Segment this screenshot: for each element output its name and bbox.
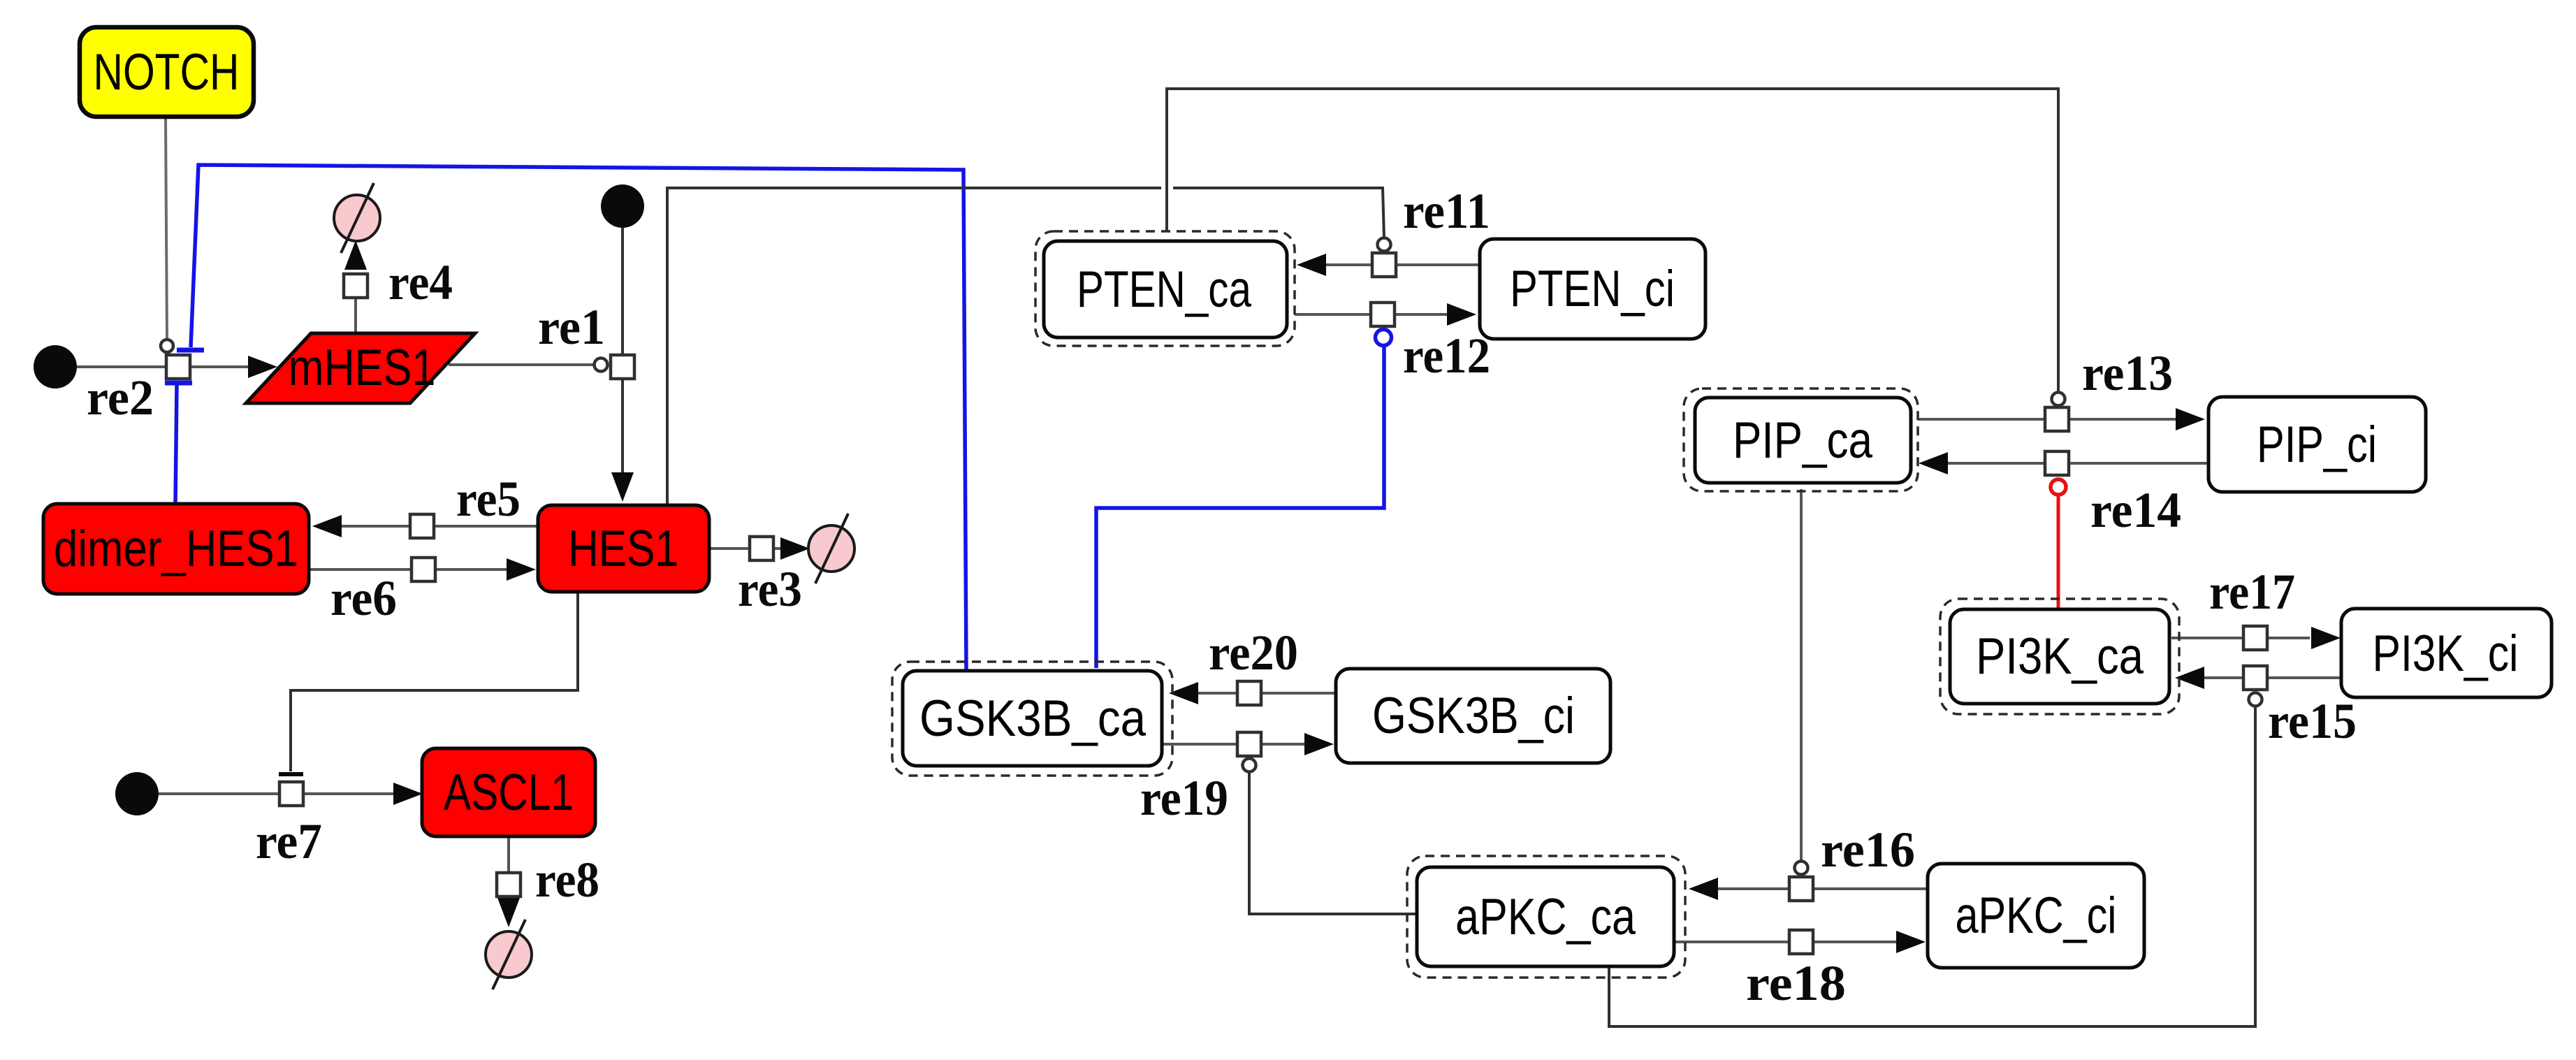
species aPKC_ca <box>1407 856 1685 978</box>
arrow re12 into PTEN_ci <box>1447 303 1476 326</box>
species PTEN_ci <box>1480 239 1705 339</box>
arrow re15 into PI3K_ca <box>2175 667 2204 689</box>
arrow re8 into degradation <box>497 898 520 927</box>
wire re1 square to HES1 <box>621 378 624 475</box>
wire catalysis HES1 to re11 <box>667 188 1161 504</box>
wire re19 square to arrow <box>1260 743 1306 746</box>
wire re18 square to arrow <box>1812 941 1898 943</box>
svg-text:PIP_ca: PIP_ca <box>1733 412 1872 469</box>
arrow re11 into PTEN_ca <box>1297 254 1326 276</box>
catalysis circle re2 <box>161 340 173 352</box>
arrow re17 into PI3K_ci <box>2311 627 2341 649</box>
process square re6 <box>412 558 435 581</box>
svg-text:re3: re3 <box>738 561 802 617</box>
wire re13 PIP_ca to square <box>1918 418 2046 421</box>
svg-text:re17: re17 <box>2209 564 2295 620</box>
arrow re20 into GSK3B_ca <box>1169 682 1198 704</box>
wire re15 PI3K_ci to square <box>2266 676 2341 679</box>
catalysis circle re14 (red) <box>2051 479 2066 495</box>
arrow re18 into aPKC_ci <box>1896 931 1926 953</box>
svg-text:re4: re4 <box>388 254 453 310</box>
svg-text:PTEN_ci: PTEN_ci <box>1510 261 1675 317</box>
arrow re6 into HES1 <box>507 558 536 581</box>
svg-text:re15: re15 <box>2268 693 2357 749</box>
wire re7 square to arrow <box>303 792 395 795</box>
process square re3 <box>750 537 773 560</box>
svg-text:re8: re8 <box>535 852 599 908</box>
wire catalysis PTEN_ca to re13 <box>1167 89 2058 392</box>
arrow re13 into PIP_ci <box>2176 408 2205 430</box>
wire re6 dimer_HES1 to square <box>309 568 412 571</box>
svg-text:re5: re5 <box>456 471 521 527</box>
species aPKC_ci <box>1928 864 2144 968</box>
process square re4 <box>344 274 368 298</box>
wire re1 source to square <box>621 228 624 356</box>
process square re11 <box>1372 253 1396 277</box>
wire catalysis NOTCH to re2 <box>166 117 167 339</box>
catalysis circle re11 <box>1378 238 1391 252</box>
species ASCL1 <box>422 748 595 836</box>
wire catalysis GSK3B_ca to re12 (blue) <box>1096 345 1384 668</box>
svg-text:re12: re12 <box>1403 328 1490 384</box>
wire re5 square to arrow <box>340 525 411 528</box>
svg-text:GSK3B_ci: GSK3B_ci <box>1372 688 1575 744</box>
wire re17 PI3K_ca to square <box>2171 637 2244 639</box>
wire re14 square to arrow <box>1946 462 2046 465</box>
catalysis circle re12 (blue) <box>1376 330 1392 346</box>
wire re19 GSK3B_ca to square <box>1163 743 1238 746</box>
wire re11 PTEN_ci to square <box>1395 263 1480 266</box>
catalysis circle re19 <box>1243 759 1256 772</box>
species dimer_HES1 <box>43 504 309 594</box>
wire re14 PIP_ci to square <box>2068 462 2208 465</box>
wire catalysis HES1 to re11 segment 2 <box>1173 188 1384 237</box>
svg-text:re20: re20 <box>1209 625 1298 681</box>
process square re15 <box>2243 666 2267 690</box>
svg-text:re18: re18 <box>1746 955 1846 1011</box>
species HES1 <box>538 505 709 592</box>
wire catalysis aPKC_ca to re15 <box>1609 707 2255 1026</box>
svg-text:PTEN_ca: PTEN_ca <box>1077 261 1251 318</box>
wire inhibition dimer_HES1 to re2 (blue) <box>175 385 177 505</box>
wire re12 PTEN_ca to square <box>1295 313 1371 316</box>
arrow re1 into HES1 <box>611 472 634 502</box>
process square re5 <box>410 514 434 538</box>
source node re7 <box>115 772 159 815</box>
wire re2 source to square <box>77 365 167 368</box>
inhibition bar re2 upper (blue) <box>177 348 204 353</box>
wire re13 square to arrow <box>2068 418 2177 421</box>
degradation sink re4 <box>334 183 380 253</box>
process square re7 <box>279 782 303 806</box>
svg-text:GSK3B_ca: GSK3B_ca <box>919 690 1146 747</box>
degradation sink re8 <box>486 920 532 989</box>
species GSK3B_ca <box>892 662 1172 776</box>
catalysis circle re1 <box>595 358 608 372</box>
wire re16 aPKC_ci to square <box>1812 887 1928 890</box>
catalysis circle re15 <box>2249 693 2262 706</box>
wire re6 square to arrow <box>435 568 508 571</box>
wire re20 GSK3B_ci to square <box>1260 692 1336 695</box>
species PIP_ca <box>1684 389 1918 491</box>
svg-text:ASCL1: ASCL1 <box>444 764 574 821</box>
wire re4 mHES1 to square <box>354 296 357 333</box>
species PTEN_ca <box>1035 231 1295 346</box>
arrow re14 into PIP_ca <box>1919 452 1948 474</box>
wire catalysis PIP_ca to re16 <box>1800 489 1803 861</box>
process square re1 <box>611 355 634 379</box>
wire re18 aPKC_ca to square <box>1675 941 1790 943</box>
species PIP_ci <box>2208 397 2426 492</box>
source node re1 <box>601 184 644 228</box>
wire re3 HES1 to square <box>709 547 750 550</box>
process square re13 <box>2045 407 2069 431</box>
wire catalysis PI3K_ca to re14 (red) <box>2057 494 2060 608</box>
svg-text:PIP_ci: PIP_ci <box>2257 416 2377 473</box>
svg-text:re14: re14 <box>2090 482 2181 538</box>
wire re15 square to arrow <box>2203 676 2244 679</box>
process square re2 <box>166 355 190 379</box>
svg-text:aPKC_ci: aPKC_ci <box>1956 887 2117 944</box>
wire re5 HES1 to square <box>435 525 538 528</box>
arrow re7 into ASCL1 <box>393 783 423 805</box>
arrow re2 into mHES1 <box>248 356 277 378</box>
svg-text:aPKC_ca: aPKC_ca <box>1455 889 1636 945</box>
wire inhibition GSK3B_ca to re2 (blue) <box>191 165 966 669</box>
svg-text:re7: re7 <box>256 813 322 869</box>
svg-text:dimer_HES1: dimer_HES1 <box>54 521 298 577</box>
svg-text:mHES1: mHES1 <box>289 340 436 396</box>
svg-text:PI3K_ca: PI3K_ca <box>1976 628 2144 685</box>
wire re7 source to square <box>159 792 280 795</box>
source node re2 <box>34 345 77 389</box>
wire catalysis aPKC_ca to re19 <box>1249 773 1416 914</box>
process square re18 <box>1789 930 1813 954</box>
inhibition bar re7 <box>279 772 303 776</box>
process square re20 <box>1237 681 1261 705</box>
species mHES1 (RNA) <box>246 333 475 403</box>
wire re11 square to arrow <box>1325 263 1373 266</box>
svg-text:PI3K_ci: PI3K_ci <box>2373 625 2519 682</box>
svg-text:HES1: HES1 <box>568 521 678 577</box>
svg-text:re1: re1 <box>538 299 605 355</box>
svg-text:NOTCH: NOTCH <box>94 44 240 101</box>
svg-text:re11: re11 <box>1403 183 1490 239</box>
species NOTCH <box>80 27 254 117</box>
inhibition bar re2 lower (blue) <box>165 381 192 386</box>
arrow re19 into GSK3B_ci <box>1304 733 1334 755</box>
process square re14 <box>2045 451 2069 475</box>
svg-text:re16: re16 <box>1821 822 1915 878</box>
svg-text:re13: re13 <box>2082 345 2173 401</box>
arrow re5 into dimer_HES1 <box>312 515 342 537</box>
arrow re16 into aPKC_ca <box>1689 878 1718 900</box>
wire re16 square to arrow <box>1717 887 1790 890</box>
wire re3 square to arrow <box>773 547 783 550</box>
wire re2 square to product <box>189 365 249 368</box>
degradation sink re3 <box>808 514 854 583</box>
process square re8 <box>497 873 521 896</box>
species GSK3B_ci <box>1336 669 1610 763</box>
wire inhibition HES1 to re7 <box>291 593 578 771</box>
wire catalysis mHES1 to re1 <box>449 363 594 366</box>
catalysis circle re16 <box>1795 862 1808 875</box>
wire re17 square to arrow <box>2266 637 2310 639</box>
process square re16 <box>1789 877 1813 901</box>
wire re8 ASCL1 to square <box>507 836 510 874</box>
wire re12 square to arrow <box>1394 313 1448 316</box>
svg-text:re19: re19 <box>1140 770 1228 826</box>
svg-text:re6: re6 <box>330 570 397 626</box>
wire re20 square to arrow <box>1197 692 1238 695</box>
arrow re4 into degradation <box>344 240 367 270</box>
species PI3K_ca <box>1940 599 2179 714</box>
catalysis circle re13 <box>2052 393 2065 406</box>
process square re17 <box>2243 626 2267 650</box>
process square re19 <box>1237 732 1261 756</box>
species PI3K_ci <box>2341 609 2552 697</box>
process square re12 <box>1371 303 1395 326</box>
arrow re3 into degradation <box>780 537 810 560</box>
svg-text:re2: re2 <box>87 370 154 426</box>
